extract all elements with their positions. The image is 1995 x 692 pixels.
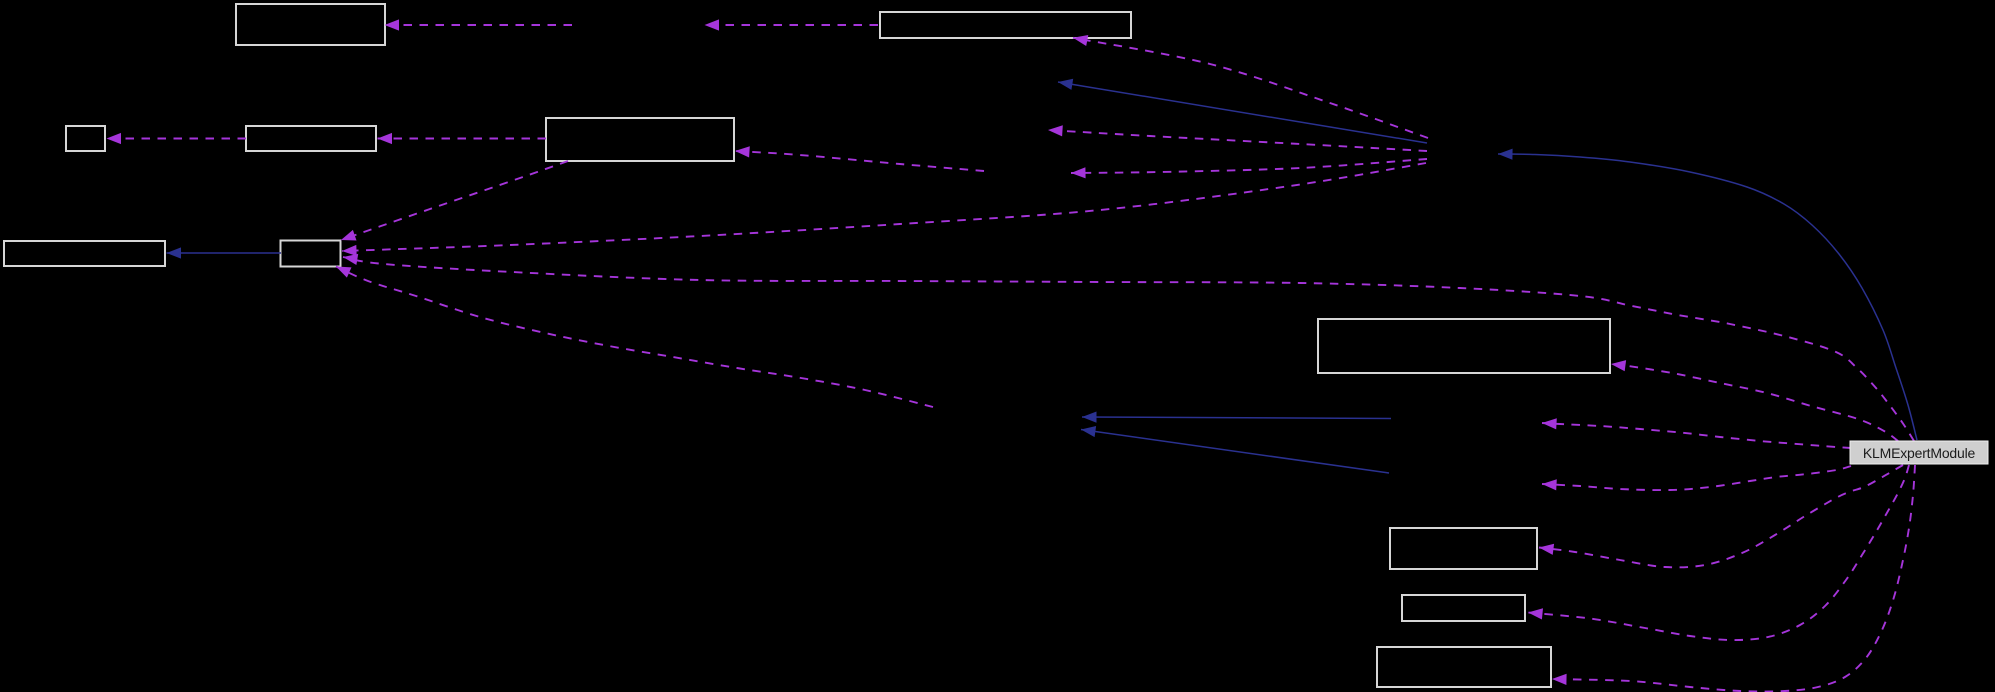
svg-text:KLMExpertModule: KLMExpertModule	[1863, 445, 1976, 461]
node KLMExpertModule	[1850, 441, 1988, 464]
wire N4 to G dashed	[336, 267, 933, 408]
node G	[281, 241, 341, 267]
wire N1 to G dashed	[342, 163, 1426, 256]
node C	[66, 126, 105, 151]
node F	[4, 241, 165, 266]
wire KLM to K dashed	[1552, 465, 1915, 692]
wire E to G dashed	[341, 161, 568, 241]
wire N1 to B dashed	[1073, 35, 1428, 138]
node J	[1402, 595, 1525, 621]
wire N5a to N4 blue	[1082, 412, 1391, 423]
wire N1 to N2b dashed	[1048, 125, 1427, 151]
wire KLM to N6a dashed	[1542, 418, 1851, 448]
node B	[880, 12, 1131, 38]
node K	[1377, 647, 1551, 687]
wire KLM to I dashed	[1539, 465, 1903, 567]
wire KLM to G long dashed	[343, 254, 1914, 441]
wire E to D dashed	[378, 133, 547, 144]
wire D to C dashed	[107, 133, 247, 144]
wire N0 to A dashed	[385, 19, 573, 30]
wire G to F blue	[167, 247, 282, 258]
node D	[246, 126, 376, 151]
wire KLM to H dashed	[1611, 360, 1898, 441]
wire KLM to N6b dashed	[1542, 466, 1851, 490]
node A	[236, 4, 385, 45]
node H	[1318, 319, 1610, 373]
wire N5b to N4 blue	[1081, 426, 1389, 473]
wire B to N0 dashed	[705, 19, 879, 30]
wire N1 to N2a blue	[1058, 79, 1427, 143]
node E	[546, 118, 734, 161]
wire N2c to E dashed	[735, 146, 984, 171]
node I	[1390, 528, 1537, 569]
wire KLM to N1 blue	[1498, 149, 1917, 440]
wire N1 to N2c dashed	[1071, 159, 1427, 178]
wire KLM to J dashed	[1528, 465, 1909, 640]
